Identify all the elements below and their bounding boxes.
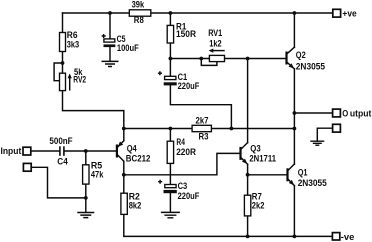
wire main right column (293, 13, 295, 236)
svg-text:Q2: Q2 (296, 49, 306, 60)
node top rail Q2 collector (293, 11, 297, 15)
node mid rail Q4 emitter (122, 127, 126, 131)
wire Q3 collector column from RV1 right node (247, 59, 249, 143)
node output (293, 111, 297, 115)
transistor Q2 2N3055 (287, 47, 326, 71)
wire R2 column and bottom negative rail (124, 175, 333, 237)
node top rail R1 (169, 11, 173, 15)
svg-text:150R: 150R (176, 28, 196, 39)
wire left column R6/RV2 down to corner into mid rail (63, 13, 124, 129)
wire RV1 line to Q2 base (170, 58, 286, 60)
node R6 RV2 (61, 61, 65, 65)
capacitor C3 (158, 180, 200, 201)
svg-text:2k7: 2k7 (196, 114, 209, 125)
svg-text:R3: R3 (199, 131, 209, 142)
input terminal (1, 145, 31, 156)
transistor Q3 2N1711 (241, 143, 277, 165)
node bottom rail Q1 emitter (293, 235, 297, 239)
wire R4/C3 column (169, 129, 171, 213)
terminal Output (333, 107, 372, 118)
svg-text:RV2: RV2 (73, 74, 86, 85)
ground below C3 (161, 212, 180, 217)
svg-text:3k3: 3k3 (67, 39, 79, 50)
svg-text:100uF: 100uF (117, 42, 139, 53)
resistor R4 (167, 136, 196, 164)
svg-text:2k2: 2k2 (252, 200, 265, 211)
resistor R6 (60, 29, 80, 52)
wire R1 drop from top rail (169, 13, 171, 59)
svg-text:220R: 220R (176, 146, 196, 157)
svg-text:Output: Output (342, 107, 371, 118)
svg-text:BC212: BC212 (126, 153, 151, 164)
wire C1 drop and bottom path to output node (170, 59, 231, 129)
svg-text:R4: R4 (176, 136, 185, 147)
wire C5 drop from top rail (109, 13, 111, 61)
node lower rail Q4 collector R2 (122, 173, 126, 177)
resistor R8 (129, 0, 151, 25)
wire RV2 wiper loop (54, 63, 62, 81)
svg-text:2N1711: 2N1711 (249, 153, 276, 164)
capacitor C4 (49, 135, 72, 167)
transistor Q1 2N3055 (288, 164, 327, 188)
potentiometer RV1 (208, 27, 224, 61)
wire Q4 collector column (123, 161, 125, 175)
terminal output ground (333, 124, 341, 132)
ground below C5 (102, 61, 119, 66)
wire Q3 emitter to Q1 base (248, 164, 288, 175)
transistor Q4 BC212 (117, 141, 151, 164)
terminal +ve (333, 7, 357, 18)
resistor R1 (167, 21, 196, 43)
svg-text:47k: 47k (91, 169, 104, 180)
wire R5 column (85, 151, 87, 198)
input ground terminal (23, 163, 31, 171)
capacitor C1 (158, 71, 200, 91)
svg-text:R8: R8 (134, 14, 144, 25)
svg-text:500nF: 500nF (49, 135, 72, 146)
wire Q4 emitter column (123, 129, 125, 141)
svg-text:2N3055: 2N3055 (298, 177, 327, 188)
node mid rail output column (293, 127, 297, 131)
node top rail C5 (108, 11, 112, 15)
wire mid rail (124, 128, 295, 130)
wire R7 column (247, 175, 249, 237)
node R5 bottom ground (84, 196, 88, 200)
ground below output terminal (310, 141, 324, 145)
svg-text:C4: C4 (57, 156, 68, 167)
node RV1 right Q3 collector (246, 57, 250, 61)
terminal -ve (332, 231, 354, 242)
wire top positive rail (63, 12, 334, 14)
svg-text:8k2: 8k2 (129, 200, 142, 211)
node R1 bottom C1 (169, 57, 173, 61)
wire RV1 wiper loop (201, 59, 217, 66)
svg-text:Input: Input (1, 145, 22, 156)
wire input ground branch (31, 167, 85, 198)
svg-text:+ve: +ve (342, 7, 356, 18)
resistor R7 (244, 190, 264, 216)
node RV1 left wiper (199, 57, 203, 61)
svg-text:-ve: -ve (341, 231, 355, 242)
svg-text:39k: 39k (132, 0, 145, 10)
node Q3 emitter R7 (246, 173, 250, 177)
potentiometer RV2 (60, 66, 87, 91)
wire input line to Q4 base (31, 150, 117, 152)
node mid rail R4 top (169, 127, 173, 131)
wire output ground branch (317, 128, 332, 141)
capacitor C5 (102, 33, 139, 53)
node bottom rail R7 (246, 235, 250, 239)
resistor R5 (83, 159, 104, 184)
node mid rail C1 branch (230, 127, 234, 131)
node input R5 top (84, 149, 88, 153)
svg-text:1k2: 1k2 (209, 37, 221, 48)
svg-text:2N3055: 2N3055 (296, 60, 325, 71)
svg-text:220uF: 220uF (178, 80, 200, 91)
resistor R3 (192, 114, 211, 141)
wire lower rail to Q3 base (124, 153, 241, 174)
ground below R5 (77, 213, 94, 218)
wire R5 ground drop (85, 198, 87, 212)
resistor R2 (121, 190, 141, 214)
svg-text:Q1: Q1 (298, 167, 308, 178)
svg-text:220uF: 220uF (178, 190, 200, 201)
wire output line (294, 112, 332, 114)
